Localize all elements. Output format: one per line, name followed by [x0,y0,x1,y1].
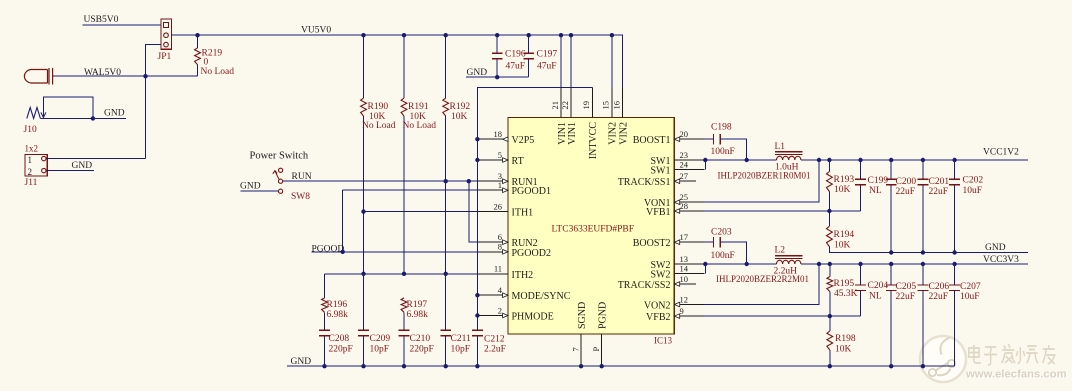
junction GNDr/C202 [952,250,956,254]
svg-text:10: 10 [680,274,689,284]
svg-text:1: 1 [28,155,33,165]
junction GNDrail/C210 [402,364,406,368]
svg-text:www.elecfans.com: www.elecfans.com [965,369,1067,381]
wire R196 bottom lead [324,312,326,330]
svg-text:SW1: SW1 [651,166,671,177]
svg-text:TRACK/SS2: TRACK/SS2 [618,280,671,291]
wire C199 bottom lead [860,185,862,211]
svg-text:R190: R190 [368,102,389,112]
svg-text:IC13: IC13 [654,335,673,345]
junction VU5V0/R191 [402,33,406,37]
wire C207 bottom lead [954,290,956,366]
svg-text:6.98k: 6.98k [327,310,349,320]
IC13 pin 28 (VFB1) [646,201,704,218]
IC13 pin 18 (V2P5) [478,129,534,146]
capacitor C196 [492,53,503,59]
watermark text dianzifashaoyou (vector strokes) [969,344,1055,365]
svg-text:MODE/SYNC: MODE/SYNC [512,291,571,302]
svg-text:1x2: 1x2 [25,144,39,154]
svg-text:C198: C198 [711,122,732,132]
svg-text:13: 13 [680,254,689,264]
IC13 pin 19 (INTVCC) [581,88,599,160]
svg-text:10uF: 10uF [960,292,980,302]
junction VU5V0/VIN1b [569,33,573,37]
wire R194 top lead [828,211,830,226]
wire R197 bottom lead [403,312,405,330]
IC13 pin 10 (TRACK/SS2) [618,274,696,291]
wire R190 top lead [363,35,365,98]
svg-text:No Load: No Load [362,121,396,131]
junction PHMODE/link [475,313,479,317]
junction RUN/R192 [444,179,448,183]
junction SW1/C198 [745,158,749,162]
svg-text:5: 5 [498,150,502,160]
wire J10 GND wire [40,117,126,119]
capacitor C209 [358,330,369,336]
wire switch GND wire [241,190,279,192]
svg-text:PGND: PGND [598,302,609,329]
svg-text:RUN: RUN [292,172,312,182]
capacitor C205 [886,285,897,290]
svg-text:14: 14 [680,263,689,273]
resistor R196 [322,298,328,312]
wire PGOOD1 to PGOOD drop [342,190,344,252]
svg-text:C202: C202 [963,175,984,185]
wire C199 top lead [860,160,862,179]
svg-text:C203: C203 [711,227,732,237]
svg-text:IHLP2020BZER1R0M01: IHLP2020BZER1R0M01 [718,171,811,181]
IC13 pin 23 (SW1) [651,150,705,167]
junction MODE/link [475,293,479,297]
svg-text:10K: 10K [834,185,851,195]
IC13 pin 13 (SW2) [651,254,705,271]
wire JP1 pin3 to WAL5V0/J11 [146,45,162,159]
capacitor C210 [399,330,410,336]
junction WAL5V0/J11/JP1 [143,74,147,78]
junction VFB2/R195 [828,314,832,318]
svg-text:C209: C209 [370,334,391,344]
svg-text:R193: R193 [834,175,855,185]
wire PGOOD net [312,251,479,253]
svg-text:SW2: SW2 [651,270,671,281]
svg-text:PGOOD1: PGOOD1 [512,186,551,197]
svg-text:28: 28 [680,201,689,211]
svg-text:22uF: 22uF [896,187,916,197]
resistor R192 [443,98,449,116]
svg-text:C211: C211 [451,334,471,344]
svg-text:15: 15 [601,101,611,110]
switch SW8 [273,168,283,193]
junction GNDrail/C211 [444,364,448,368]
svg-text:220pF: 220pF [329,345,353,355]
wire C202 top lead [954,160,956,179]
junction VU5V0/R192 [444,33,448,37]
svg-text:No Load: No Load [403,121,437,131]
svg-text:8: 8 [498,242,502,252]
wire VU5V0 rail [171,35,622,87]
svg-text:PHMODE: PHMODE [512,312,554,323]
wire C203 to SW2 [720,242,747,264]
svg-text:GND: GND [467,68,488,78]
wire C202 bottom lead [954,185,956,253]
wire PGOOD1 net [343,189,478,191]
wire RUN net [283,180,478,182]
IC13 pin 1 (PGOOD1) [478,180,551,197]
junction GNDrail/C212 [475,364,479,368]
junction VCC1V2/C200 [889,158,893,162]
svg-text:C200: C200 [896,177,917,187]
junction ITH2/C209col [361,272,365,276]
svg-text:NL: NL [869,291,882,301]
junction VFB1/R193 [827,209,831,213]
junction RUN/RUN2 [467,179,471,183]
wire WAL5V0 net [53,75,198,77]
IC13 pin P (PGND) [591,302,609,364]
IC13 pin 20 (BOOST1) [633,129,705,146]
svg-text:9: 9 [680,306,684,316]
wire VON2 net [704,264,819,305]
capacitor C212 [472,330,483,336]
junction RT/link [475,158,479,162]
capacitor C201 [918,179,929,184]
wire C197 top lead [528,35,530,53]
svg-text:2: 2 [28,167,33,177]
junction VCC3V3/C207 [952,262,956,266]
wire J10 loop [43,97,93,118]
junction GNDrail/PGND [600,364,604,368]
junction VCC1V2/C202 [952,158,956,162]
wire VIN2 pin15 riser [611,35,613,87]
wire R192 bottom lead [445,116,447,330]
svg-text:220pF: 220pF [410,345,434,355]
svg-text:10K: 10K [451,112,468,122]
junction VCC3V3/C204 [858,262,862,266]
wire C200 top lead [890,160,892,179]
svg-text:6: 6 [498,232,502,242]
svg-text:IHLP2020BZER2R2M01: IHLP2020BZER2R2M01 [716,274,809,284]
inductor L1 [775,152,802,155]
svg-text:22uF: 22uF [929,187,949,197]
svg-text:VIN1: VIN1 [567,122,578,145]
svg-text:SGND: SGND [577,302,588,329]
wire R219 bottom lead [197,65,199,77]
wire R193 top lead [828,160,830,172]
IC13 pin 6 (RUN2) [478,232,538,249]
wire C200 bottom lead [890,185,892,253]
inductor L2 [775,256,802,259]
wire SGND to GND rail [580,364,582,366]
IC13 pin 24 (SW1) [651,159,705,176]
IC13 pin 21 (VIN1) [550,88,568,145]
capacitor C202 [949,179,960,184]
svg-text:C208: C208 [329,334,350,344]
connector JP1 [161,19,171,49]
svg-text:R196: R196 [327,300,348,310]
IC13 pin 15 (VIN2) [601,88,619,145]
wire C208 bottom lead [324,336,326,366]
wire R195 bottom lead [829,292,831,317]
svg-text:10pF: 10pF [370,345,390,355]
svg-text:BOOST1: BOOST1 [633,135,671,146]
wire VON1 net [704,160,819,202]
svg-text:16: 16 [611,101,621,110]
IC13 pin 3 (RUN1) [478,171,538,188]
svg-text:22uF: 22uF [896,292,916,302]
svg-text:BOOST2: BOOST2 [633,238,671,249]
wire C207 top lead [954,264,956,285]
IC13 pin 14 (SW2) [651,263,705,280]
IC13 pin 9 (VFB2) [646,306,704,323]
junction VCC1V2/C199 [858,158,862,162]
svg-text:C212: C212 [484,334,505,344]
IC13 pin 27 (TRACK/SS1) [618,171,696,188]
resistor R191 [401,98,407,116]
wire BOOST2 to C203 [704,241,713,243]
wire R191 bottom lead [403,116,405,274]
svg-text:USB5V0: USB5V0 [84,15,119,25]
wire C212 bottom lead [476,336,478,366]
wire J11 pin2 GND wire [46,170,94,172]
wire VFB2 net [704,315,860,317]
svg-text:R194: R194 [834,230,855,240]
junction GNDrail/C206 [921,364,925,368]
svg-text:R197: R197 [407,300,428,310]
svg-text:23: 23 [680,150,689,160]
IC13 pin 7 (SGND) [570,302,588,364]
IC13 pin 8 (PGOOD2) [478,242,551,259]
junction J10-GND [91,116,95,120]
IC13 pin 5 (RT) [478,150,524,167]
capacitor C197 [523,53,534,59]
resistor R197 [401,298,407,312]
svg-text:10pF: 10pF [451,345,471,355]
junction VU5V0/C196 [495,33,499,37]
junction VU5V0/VIN2a [610,33,614,37]
junction VU5V0/C197 [527,33,531,37]
svg-text:C201: C201 [929,177,950,187]
IC13 pin 17 (BOOST2) [633,232,705,249]
svg-text:L2: L2 [775,246,786,256]
svg-text:J11: J11 [25,178,38,188]
wire C206 top lead [922,264,924,285]
junction GNDrail/C209 [361,364,365,368]
svg-text:R191: R191 [408,102,429,112]
svg-text:20: 20 [680,129,689,139]
junction SW2/C203 [745,262,749,266]
svg-text:R195: R195 [834,279,855,289]
svg-text:V2P5: V2P5 [512,135,535,146]
wire C204 top lead [860,264,862,285]
resistor R194 [827,226,833,247]
connector J11 [25,155,47,176]
svg-text:GND: GND [985,243,1006,253]
svg-text:17: 17 [680,232,689,242]
wire R198 bottom lead [829,350,831,366]
wire C206 bottom lead [922,290,924,366]
svg-text:10K: 10K [834,240,851,250]
junction VCC1V2/C201 [921,158,925,162]
svg-text:SW8: SW8 [291,192,310,202]
wire SW1 pin24 join [704,160,706,170]
IC13 pin 4 (MODE/SYNC) [478,285,571,302]
junction VU5V0/VIN1a [559,33,563,37]
wire C197 bottom lead [528,59,530,77]
wire BOOST1 to C198 [704,138,713,140]
svg-text:VFB2: VFB2 [646,312,670,323]
power jack J10 switch contact zigzag [27,108,41,119]
svg-text:PGOOD2: PGOOD2 [512,248,551,259]
capacitor C200 [886,179,897,184]
junction ITH2/R197col [402,272,406,276]
capacitor C198 [713,134,720,145]
svg-text:VFB1: VFB1 [646,207,670,218]
wire SW1/VCC1V2 rail [704,159,1028,161]
junction SW2/pin14 [703,262,707,266]
svg-text:26: 26 [494,201,503,211]
svg-text:21: 21 [550,101,560,110]
wire VFB1 net [704,210,860,212]
svg-text:TRACK/SS1: TRACK/SS1 [618,177,671,188]
wire J11 pin1 wire [46,158,146,160]
wire R194 bottom lead to GND rail [829,247,1028,253]
watermark elecfans logo [920,336,966,382]
svg-text:22: 22 [560,101,570,110]
svg-text:INTVCC: INTVCC [588,122,599,160]
wire C209 bottom lead [363,336,365,366]
svg-text:NL: NL [869,186,882,196]
junction VCC1V2/VON1 [817,158,821,162]
IC13 pin 11 (ITH2) [478,264,533,281]
capacitor C203 [713,237,720,248]
wire C196 top lead [496,35,498,53]
junction VCC3V3/R195 [828,262,832,266]
svg-text:VCC3V3: VCC3V3 [983,255,1019,265]
junction GNDrail/C205 [889,364,893,368]
wire C205 bottom lead [890,290,892,366]
wire R195 top lead [829,264,831,277]
IC13 pin 16 (VIN2) [611,88,629,145]
svg-text:C205: C205 [896,282,917,292]
svg-text:2: 2 [498,305,502,315]
wire R190 bottom lead / ITH column [363,116,365,330]
svg-text:45.3K: 45.3K [834,289,858,299]
IC13 pin 12 (VON2) [644,294,704,311]
capacitor C204 [855,285,866,290]
svg-text:19: 19 [581,101,591,110]
wire ITH1 net [364,211,479,213]
svg-text:100nF: 100nF [711,251,735,261]
junction ITH1/column [361,209,365,213]
svg-text:10uF: 10uF [963,186,983,196]
resistor R219 [195,48,201,65]
capacitor C207 [949,285,960,290]
resistor R195 [827,277,833,292]
op-amp/regulator IC U: IC13 LTC3633EUFD#PBF body [508,118,674,335]
wire VIN1 pin21 riser [560,35,562,87]
IC13 pin 22 (VIN1) [560,88,578,145]
svg-text:C197: C197 [537,50,558,60]
wire C198 to SW1 [720,139,747,160]
svg-text:11: 11 [494,264,502,274]
svg-text:0: 0 [204,57,209,67]
svg-text:R198: R198 [835,334,856,344]
junction GNDrail/C208 [322,364,326,368]
wire SW2 pin14 join [704,264,706,274]
svg-text:GND: GND [104,109,125,119]
junction C196-GND [495,75,499,79]
svg-text:22uF: 22uF [929,292,949,302]
wire RUN2 branch [469,181,478,242]
wire VIN1 pin22 riser [570,35,572,87]
svg-text:LTC3633EUFD#PBF: LTC3633EUFD#PBF [552,225,635,235]
svg-text:P: P [591,347,601,352]
svg-text:R192: R192 [450,102,471,112]
svg-text:PGOOD: PGOOD [312,244,345,254]
svg-text:1: 1 [498,180,502,190]
wire USB5V0 net [83,24,162,26]
wire R192 top lead [445,35,447,98]
svg-text:JP1: JP1 [158,52,172,62]
svg-text:47uF: 47uF [537,61,557,71]
wire C205 top lead [890,264,892,285]
svg-text:27: 27 [680,171,689,181]
IC13 pin 26 (ITH1) [478,201,533,218]
svg-text:VCC1V2: VCC1V2 [983,147,1019,157]
capacitor C208 [319,330,330,336]
resistor R193 [827,172,833,192]
junction ITH2/C211col [444,272,448,276]
svg-text:VU5V0: VU5V0 [301,25,331,35]
svg-text:VIN2: VIN2 [608,122,619,145]
junction SW1/pin24 [703,158,707,162]
svg-text:L1: L1 [775,142,786,152]
junction GNDrail/R198 [828,364,832,368]
svg-text:C204: C204 [868,281,889,291]
svg-text:7: 7 [570,347,580,351]
svg-text:WAL5V0: WAL5V0 [84,68,121,78]
svg-text:C206: C206 [929,282,950,292]
svg-text:47uF: 47uF [506,61,526,71]
wire R219 top lead [197,35,199,48]
svg-text:GND: GND [291,357,312,367]
junction VCC3V3/C205 [889,262,893,266]
junction GNDrail/SGND [579,364,583,368]
wire C201 top lead [922,160,924,179]
junction PGOOD/drop [341,250,345,254]
power jack J10 barrel pin [24,68,52,85]
capacitor C199 [855,179,866,184]
junction VCC1V2/R193 [827,158,831,162]
svg-text:ITH1: ITH1 [512,208,534,219]
capacitor C206 [918,285,929,290]
J10 loop arrowhead [41,112,46,117]
svg-text:GND: GND [240,182,261,192]
wire bottom GND rail [287,365,955,367]
wire R191 top lead [403,35,405,98]
wire R198 top lead [829,316,831,331]
junction VCC3V3/VON2 [817,262,821,266]
resistor R190 [361,98,367,116]
svg-text:C210: C210 [410,334,431,344]
junction GNDr/C201 [921,250,925,254]
svg-text:VIN2: VIN2 [618,122,629,145]
svg-text:18: 18 [494,129,503,139]
wire C211 bottom lead [445,336,447,366]
wire PGND to GND rail [601,364,603,366]
wire R193 bottom lead [828,192,830,212]
svg-text:C207: C207 [960,282,981,292]
resistor R198 [827,331,833,350]
